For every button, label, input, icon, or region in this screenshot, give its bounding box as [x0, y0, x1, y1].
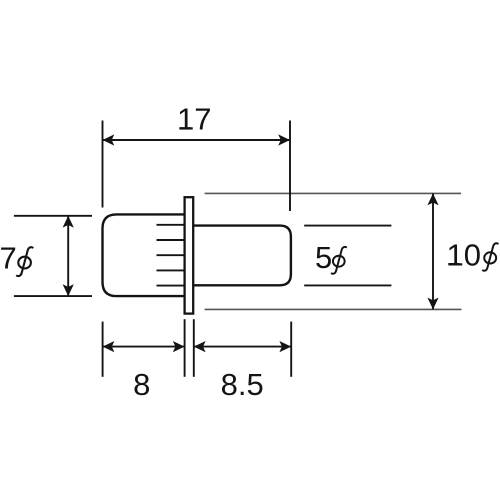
svg-text:8: 8	[133, 367, 150, 402]
svg-text:10: 10	[447, 237, 481, 272]
svg-text:5: 5	[315, 240, 332, 275]
svg-text:17: 17	[177, 102, 211, 137]
svg-text:8.5: 8.5	[221, 367, 264, 402]
svg-text:7: 7	[0, 241, 17, 276]
